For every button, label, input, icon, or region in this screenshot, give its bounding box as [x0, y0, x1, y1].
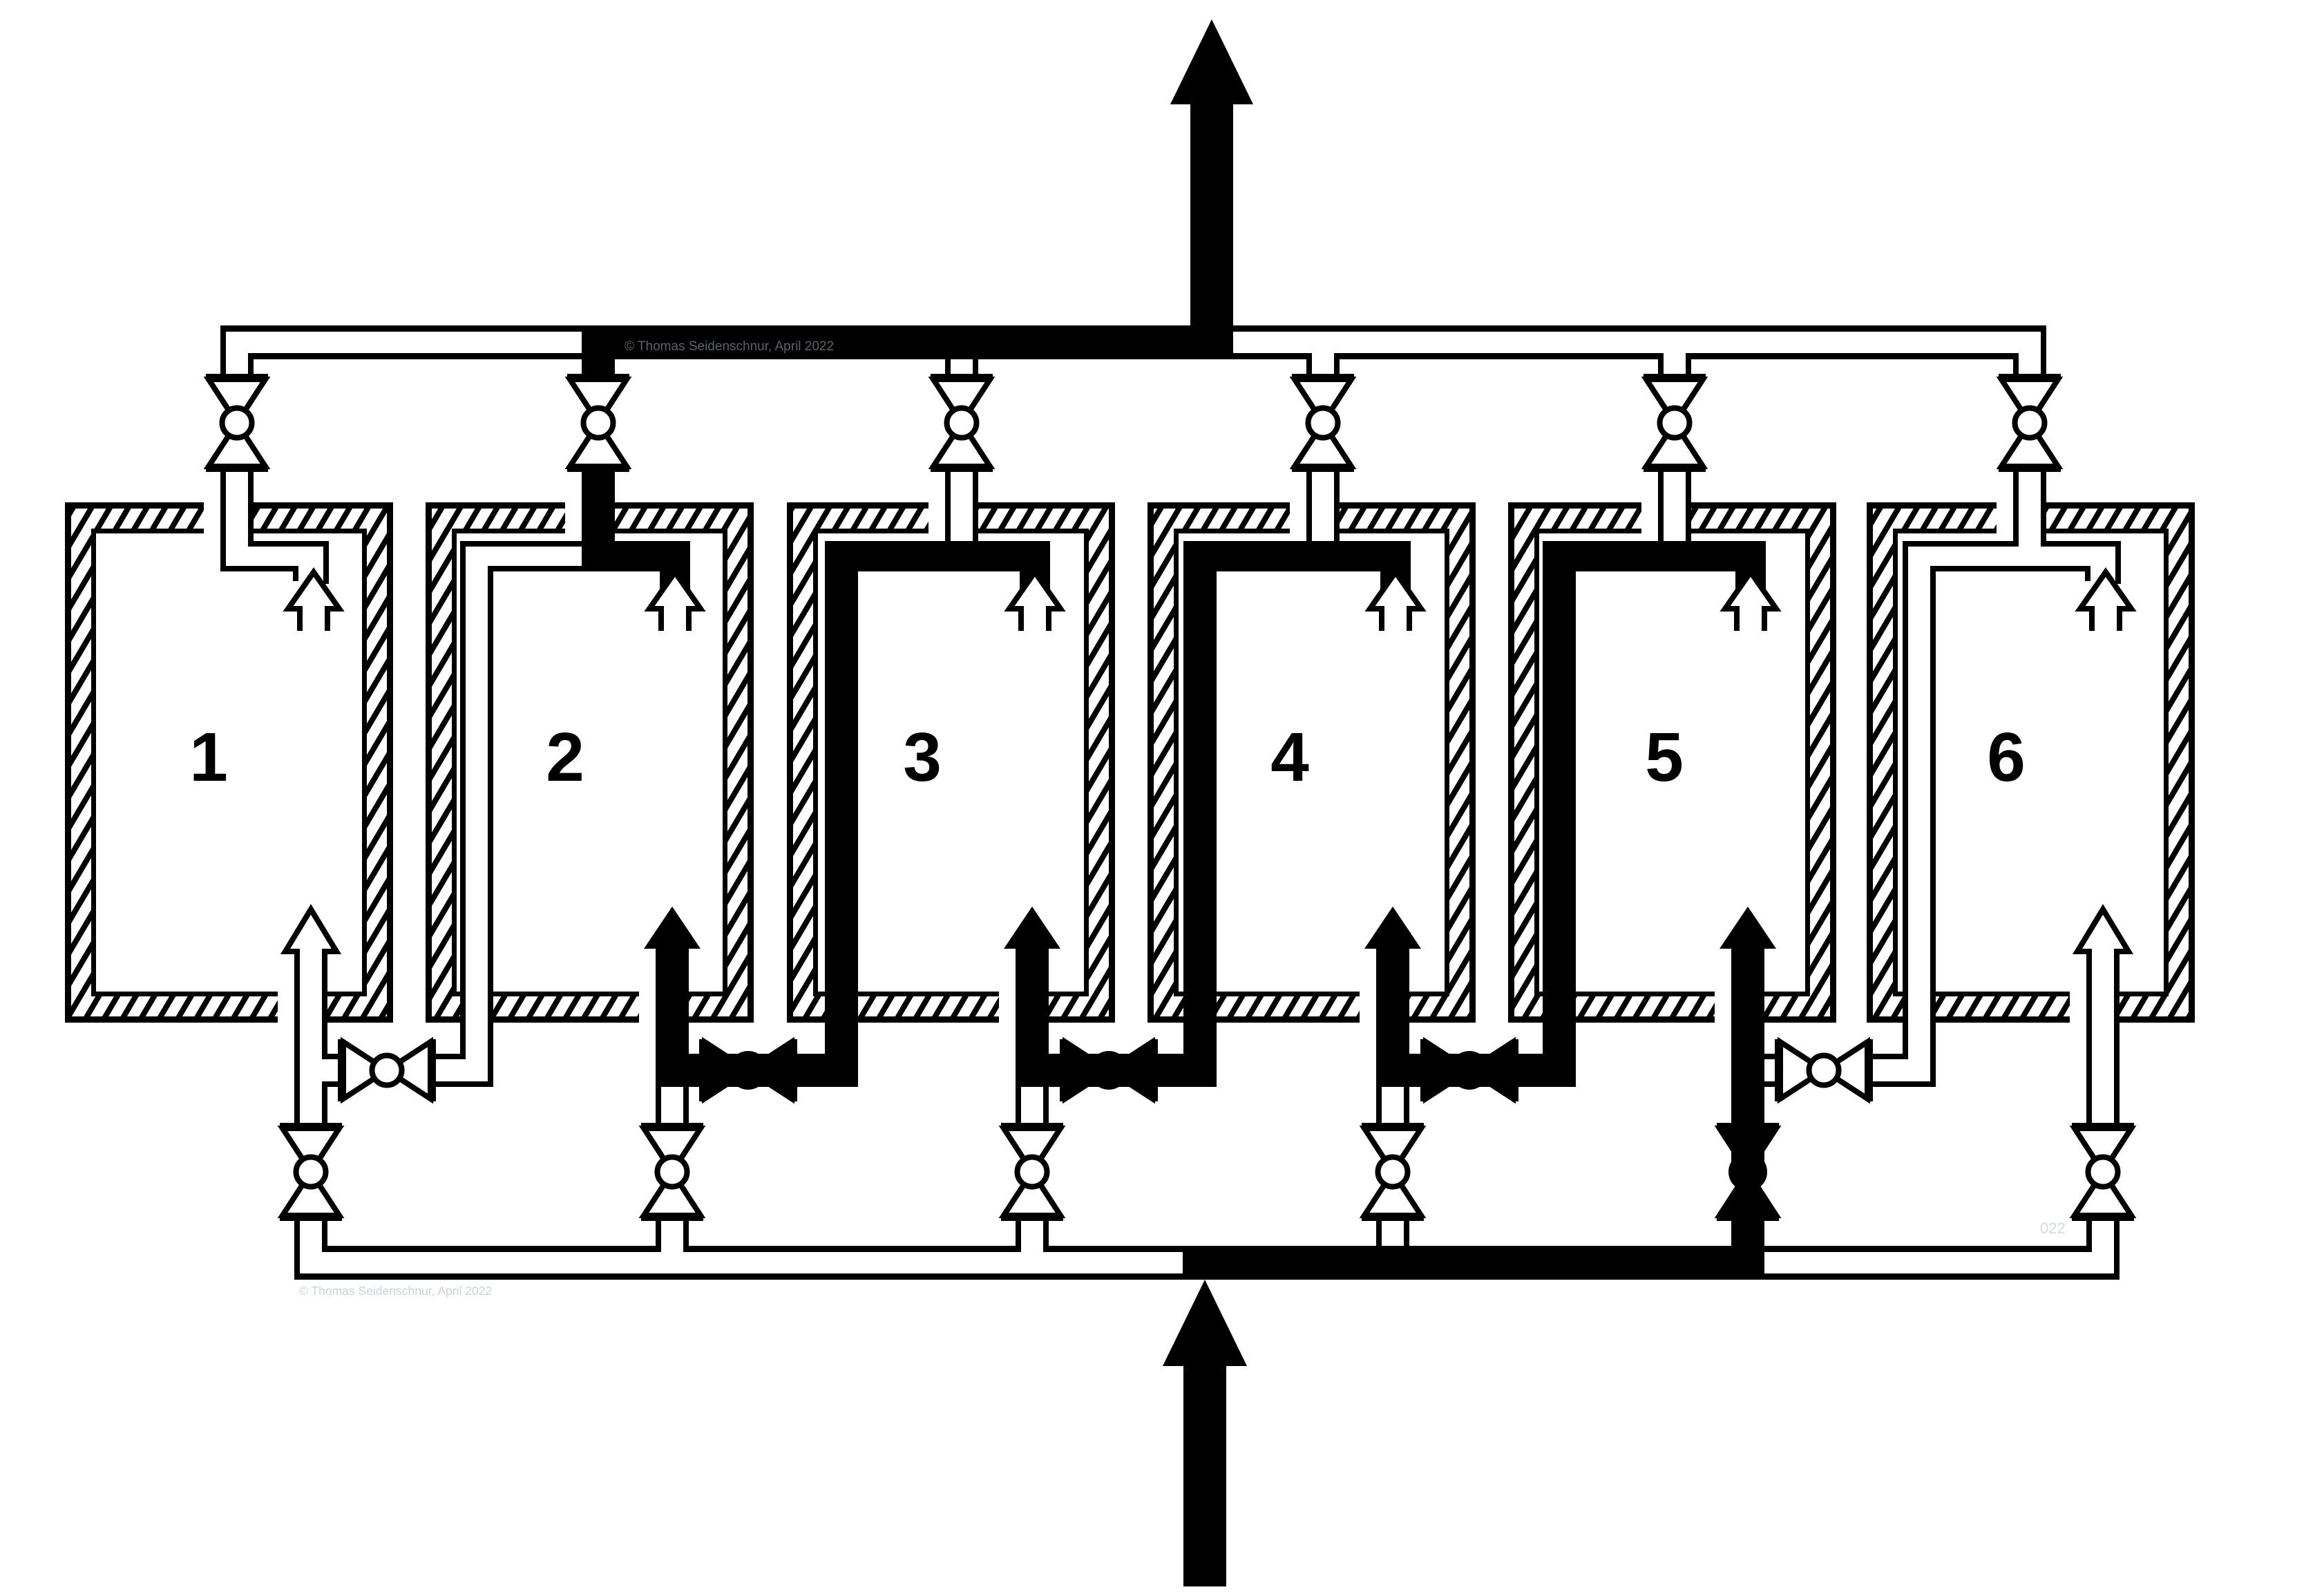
bottom manifold black fresh-gas segment: [1183, 1246, 1764, 1280]
pipe stub riser 1 to valve V12: [327, 1054, 344, 1059]
chamber 1 wall (hatched refractory): [65, 502, 393, 1023]
chamber 3 white pipe from valve V3t to duct: [945, 466, 951, 541]
top valve V2t: [567, 374, 629, 380]
top manifold lower line: [254, 353, 587, 359]
svg-text:022: 022: [2040, 1220, 2066, 1237]
chamber 2 top duct white part: [460, 541, 582, 547]
chamber 2 left duct (white): [460, 541, 466, 1059]
riser arrow chamber 5 (black): [1720, 907, 1776, 1087]
black transfer pipe chamber 5 duct to riser 4: [1376, 1054, 1576, 1087]
inter-chamber valve V56 (closed, white): [1775, 1039, 1781, 1101]
branch valve V3b to manifold: [1016, 1215, 1021, 1252]
riser pipe below junction chamber 4 (white): [1376, 1087, 1382, 1129]
top manifold left end elbow / branch to valve V1t: [220, 325, 226, 377]
chamber 6 wall (hatched refractory): [1867, 502, 2195, 1023]
chamber 5 wall (hatched refractory): [1508, 502, 1836, 1023]
chamber 2 black duct from valve V2t to mouth: [582, 466, 615, 541]
bottom valve V3b: [1001, 1123, 1063, 1129]
top manifold right end elbow / branch to valve V6t: [2013, 353, 2019, 377]
svg-text:© Thomas Seidenschnur, April 2: © Thomas Seidenschnur, April 2022: [625, 339, 834, 354]
chamber 2 wall opening for left duct: [460, 988, 493, 1026]
black transfer pipe chamber 4 duct to riser 3: [1016, 1054, 1217, 1087]
riser arrow chamber 6 (hollow): [2077, 909, 2128, 995]
riser pipe below junction chamber 3 (white): [1016, 1087, 1021, 1129]
chamber 2 wall (hatched refractory): [426, 502, 754, 1023]
top manifold branch pipe to valve V4t: [1306, 353, 1312, 377]
chamber 4 top duct and left duct (black): [1183, 541, 1411, 571]
inter-chamber valve V12 (closed, white): [338, 1039, 344, 1101]
black branch valve V5b to manifold: [1731, 1210, 1764, 1280]
top valve V4t: [1292, 374, 1354, 380]
chamber 1 wall top opening: [204, 499, 254, 537]
top manifold branch pipe to valve V3t: [945, 353, 951, 377]
chamber 3 top duct and left duct (black): [825, 541, 1050, 571]
inter-chamber valve V23 (open, black): [699, 1039, 705, 1101]
chamber 2 duct mouth arrow (hollow): [649, 572, 701, 631]
riser pipe below junction chamber 2 (white): [656, 1087, 661, 1129]
top manifold black flue-gas segment: [582, 325, 1233, 359]
chamber 5 wall top opening: [1641, 499, 1691, 537]
chamber 4 wall (hatched refractory): [1147, 502, 1476, 1023]
riser arrow chamber 2 (black): [644, 907, 701, 1087]
chamber 2 wall top opening: [565, 499, 615, 537]
chamber 1 wall bottom opening: [278, 988, 327, 1026]
top valve V3t: [931, 374, 993, 380]
svg-text:1: 1: [189, 719, 228, 796]
bottom valve V4b: [1362, 1123, 1424, 1129]
svg-text:3: 3: [903, 719, 942, 796]
bottom valve V1b: [280, 1123, 342, 1129]
chamber 1 duct mouth arrow (hollow): [288, 572, 339, 631]
chamber 6 duct mouth arrow (hollow): [2080, 572, 2131, 631]
top manifold branch pipe to valve V5t: [1658, 353, 1664, 377]
bottom valve V5b: [1717, 1123, 1779, 1129]
svg-text:© Thomas Seidenschnur, April 2: © Thomas Seidenschnur, April 2022: [299, 1284, 492, 1298]
branch valve V6b to manifold (right end elbow): [2086, 1215, 2092, 1252]
riser arrow chamber 3 (black): [1004, 907, 1060, 1087]
svg-text:2: 2: [546, 719, 584, 796]
svg-text:4: 4: [1270, 719, 1309, 796]
chamber 4 wall bottom opening: [1360, 988, 1409, 1026]
chamber 3 wall bottom opening: [999, 988, 1049, 1026]
chamber 1 duct pipe from valve V1t (white elbow): [220, 466, 226, 571]
branch valve V4b to manifold: [1376, 1215, 1382, 1252]
riser pipe chamber 6 (white): [2086, 952, 2092, 1129]
bottom manifold upper line: [322, 1246, 661, 1252]
chamber 5 top duct and left duct (black): [1543, 541, 1766, 571]
chamber 6 top duct and left duct (white): [1903, 541, 1908, 1059]
black riser pipe chamber 5 from bottom valve: [1731, 1054, 1764, 1172]
riser pipe chamber 1 (white): [294, 952, 300, 1129]
chamber 6 white pipe from valve V6t to duct: [2013, 466, 2019, 547]
chamber 6 wall top opening: [1997, 499, 2046, 537]
svg-text:6: 6: [1987, 719, 2026, 796]
black branch pipe chamber 2 to valve V2t: [582, 325, 615, 380]
chamber 3 wall top opening: [928, 499, 978, 537]
bottom valve V6b: [2072, 1123, 2134, 1129]
top valve V1t: [206, 374, 268, 380]
bottom manifold lower line: [294, 1273, 2120, 1280]
chamber 5 wall bottom opening: [1715, 988, 1764, 1026]
pipe stub riser 5 to valve V56: [1764, 1054, 1781, 1059]
chamber 5 white pipe from valve V5t to duct: [1658, 466, 1664, 541]
chamber 4 duct mouth arrow (hollow): [1370, 572, 1421, 631]
top manifold upper line: [220, 325, 1190, 332]
svg-text:5: 5: [1645, 719, 1684, 796]
top valve V5t: [1644, 374, 1706, 380]
chamber 6 wall bottom opening: [2070, 988, 2120, 1026]
bottom valve V2b: [641, 1123, 703, 1129]
branch valve V2b to manifold: [656, 1215, 661, 1252]
inter-chamber valve V34 (open, black): [1060, 1039, 1066, 1101]
inter-chamber valve V45 (open, black): [1420, 1039, 1427, 1101]
chamber 3 wall (hatched refractory): [787, 502, 1115, 1023]
riser arrow chamber 1 (hollow): [285, 909, 336, 995]
pipe valve V56 to chamber 6 left duct elbow: [1867, 1054, 1908, 1059]
chamber 6 wall opening for left duct: [1903, 988, 1936, 1026]
chamber 3 duct mouth arrow (hollow): [1009, 572, 1060, 631]
top valve V6t: [1999, 374, 2061, 380]
chamber 5 duct mouth arrow (hollow): [1725, 572, 1776, 631]
riser arrow chamber 4 (black): [1364, 907, 1421, 1087]
pipe valve V12 to chamber 2 left duct elbow: [430, 1054, 466, 1059]
chamber 4 wall top opening: [1290, 499, 1340, 537]
exhaust stack arrow (flue gas out): [1190, 104, 1233, 332]
inlet arrow (gas in): [1163, 1280, 1247, 1366]
branch valve V1b to manifold (left end elbow): [294, 1215, 300, 1280]
chamber 4 white pipe from valve V4t to duct: [1306, 466, 1312, 541]
black transfer pipe chamber 3 duct to riser 2: [656, 1054, 858, 1087]
chamber 2 wall bottom opening: [639, 988, 689, 1026]
